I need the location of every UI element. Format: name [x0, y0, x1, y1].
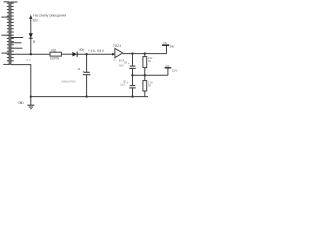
regulator U1 input arrow [112, 53, 115, 56]
resistor R2 upper lead [144, 54, 146, 57]
capacitor C2 upper lead [132, 54, 134, 66]
svg-text:R1: R1 [148, 59, 152, 63]
capacitor C1 plates [83, 72, 91, 74]
terminal XT2 pad [165, 67, 172, 69]
node junction C2 on output wire [131, 52, 133, 54]
svg-text:+: + [82, 70, 84, 74]
wire bias branch vertical [30, 18, 32, 55]
transformer primary bottom terminal [3, 63, 9, 65]
capacitor C3 upper lead [132, 75, 134, 85]
svg-text:GND: GND [18, 101, 24, 105]
resistor R2 [143, 57, 147, 68]
wire main AC tap to rectifier [11, 53, 50, 55]
capacitor C1 lower lead [86, 75, 88, 97]
svg-text:VD5: VD5 [79, 48, 84, 52]
terminal XT1 pad [162, 44, 169, 46]
ground symbol [27, 105, 34, 109]
transformer primary top terminal [4, 1, 10, 3]
svg-text:R12: R12 [51, 48, 56, 52]
capacitor C2 plates [129, 66, 135, 68]
svg-text:+: + [126, 81, 128, 85]
transformer secondary stub tap A [11, 37, 23, 39]
wire transformer bottom tap [11, 65, 31, 106]
wire mid rail to +12V terminal [167, 68, 169, 75]
ground rail wire [31, 96, 148, 98]
node junction C1 on ground rail [85, 95, 87, 97]
node junction C3 on ground rail [131, 95, 133, 97]
node junction C1 on main wire [85, 53, 87, 55]
svg-text:36V: 36V [32, 19, 38, 23]
capacitor C3 lower lead [132, 88, 134, 97]
svg-text:R2: R2 [148, 83, 152, 87]
transformer T1 secondary winding bumps [11, 3, 14, 61]
regulator U1 7824 triangle [115, 48, 123, 57]
transformer T1 primary winding bumps [7, 3, 10, 61]
svg-text:+36.58V: +36.58V [88, 49, 105, 53]
transformer T1 core [9, 2, 11, 66]
resistor R3 upper lead [144, 75, 146, 80]
svg-text:На схему смещения: На схему смещения [33, 13, 66, 17]
resistor R3 [143, 81, 147, 91]
wire output to +24V terminal [166, 46, 168, 54]
svg-text:100/7W: 100/7W [50, 56, 59, 60]
node junction D1 on main wire [30, 53, 32, 55]
transformer secondary top tap [11, 1, 18, 3]
svg-text:5600uF/63V: 5600uF/63V [62, 79, 77, 83]
svg-text:17: 17 [113, 58, 116, 62]
svg-text:+: + [128, 62, 130, 66]
capacitor C2 lower lead [132, 68, 134, 75]
svg-text:12V: 12V [172, 69, 179, 73]
resistor R2 lower lead [144, 68, 146, 76]
transformer primary tap 3 [1, 52, 9, 54]
diode D2 [72, 52, 77, 57]
svg-text:XT2: XT2 [165, 64, 169, 68]
annotation arrow to bias circuit [29, 15, 32, 19]
transformer primary tap 2 [1, 34, 9, 36]
svg-text:7824: 7824 [113, 44, 121, 48]
node junction R2 on output wire [144, 52, 146, 54]
resistor R1 (series) [50, 52, 61, 56]
capacitor C3 plates [129, 86, 135, 88]
transformer primary tap 1 [1, 16, 9, 18]
svg-text:XT1: XT1 [163, 41, 167, 45]
node junction ground rail start [30, 96, 32, 98]
diode D1 [29, 33, 33, 38]
transformer secondary stub tap B [11, 42, 22, 44]
wire D2 to regulator input [78, 53, 114, 55]
svg-text:10uF: 10uF [120, 83, 126, 87]
resistor R3 lower lead [144, 91, 146, 97]
svg-text:68uF: 68uF [119, 64, 125, 68]
transformer secondary stub tap C [11, 47, 23, 49]
svg-text:-0V: -0V [25, 58, 31, 62]
wire R1 to D2 [61, 53, 72, 55]
svg-text:C1: C1 [78, 67, 81, 71]
node junction C3 on mid rail [131, 74, 133, 76]
node junction R3 on mid rail [144, 74, 146, 76]
capacitor C1 leads [86, 54, 88, 72]
wire mid rail 12V [133, 74, 168, 76]
wire regulator output [123, 53, 167, 55]
